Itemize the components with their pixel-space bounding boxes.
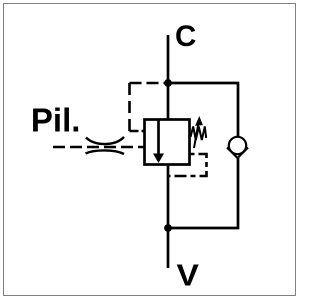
svg-text:C: C xyxy=(175,20,196,53)
svg-text:Pil.: Pil. xyxy=(31,102,81,139)
svg-text:V: V xyxy=(177,258,200,292)
